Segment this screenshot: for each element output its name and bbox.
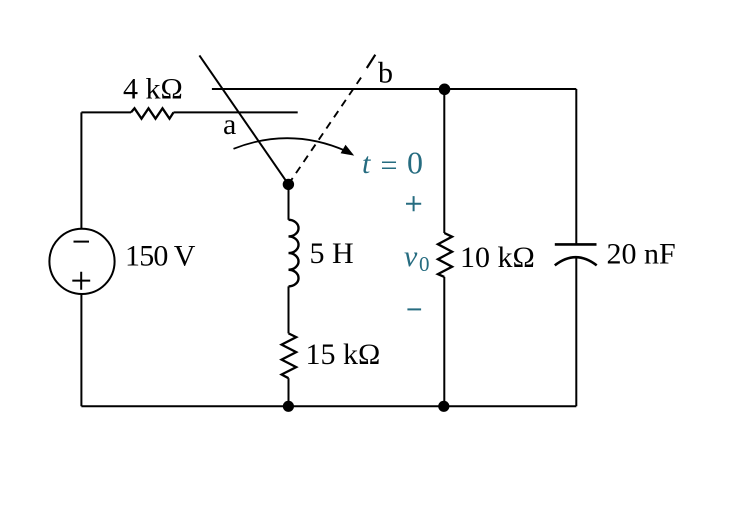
svg-text:0: 0 [407, 145, 423, 181]
svg-text:20 nF: 20 nF [607, 238, 676, 271]
svg-text:5 H: 5 H [310, 237, 354, 270]
svg-text:0: 0 [419, 252, 430, 276]
svg-text:t: t [362, 147, 371, 180]
svg-text:b: b [378, 57, 393, 90]
svg-text:a: a [223, 108, 236, 141]
svg-text:4 kΩ: 4 kΩ [123, 73, 183, 106]
svg-text:10 kΩ: 10 kΩ [460, 241, 535, 274]
svg-text:=: = [381, 149, 398, 182]
svg-text:v: v [404, 240, 418, 273]
svg-text:15 kΩ: 15 kΩ [306, 338, 381, 371]
svg-text:150 V: 150 V [125, 240, 196, 273]
